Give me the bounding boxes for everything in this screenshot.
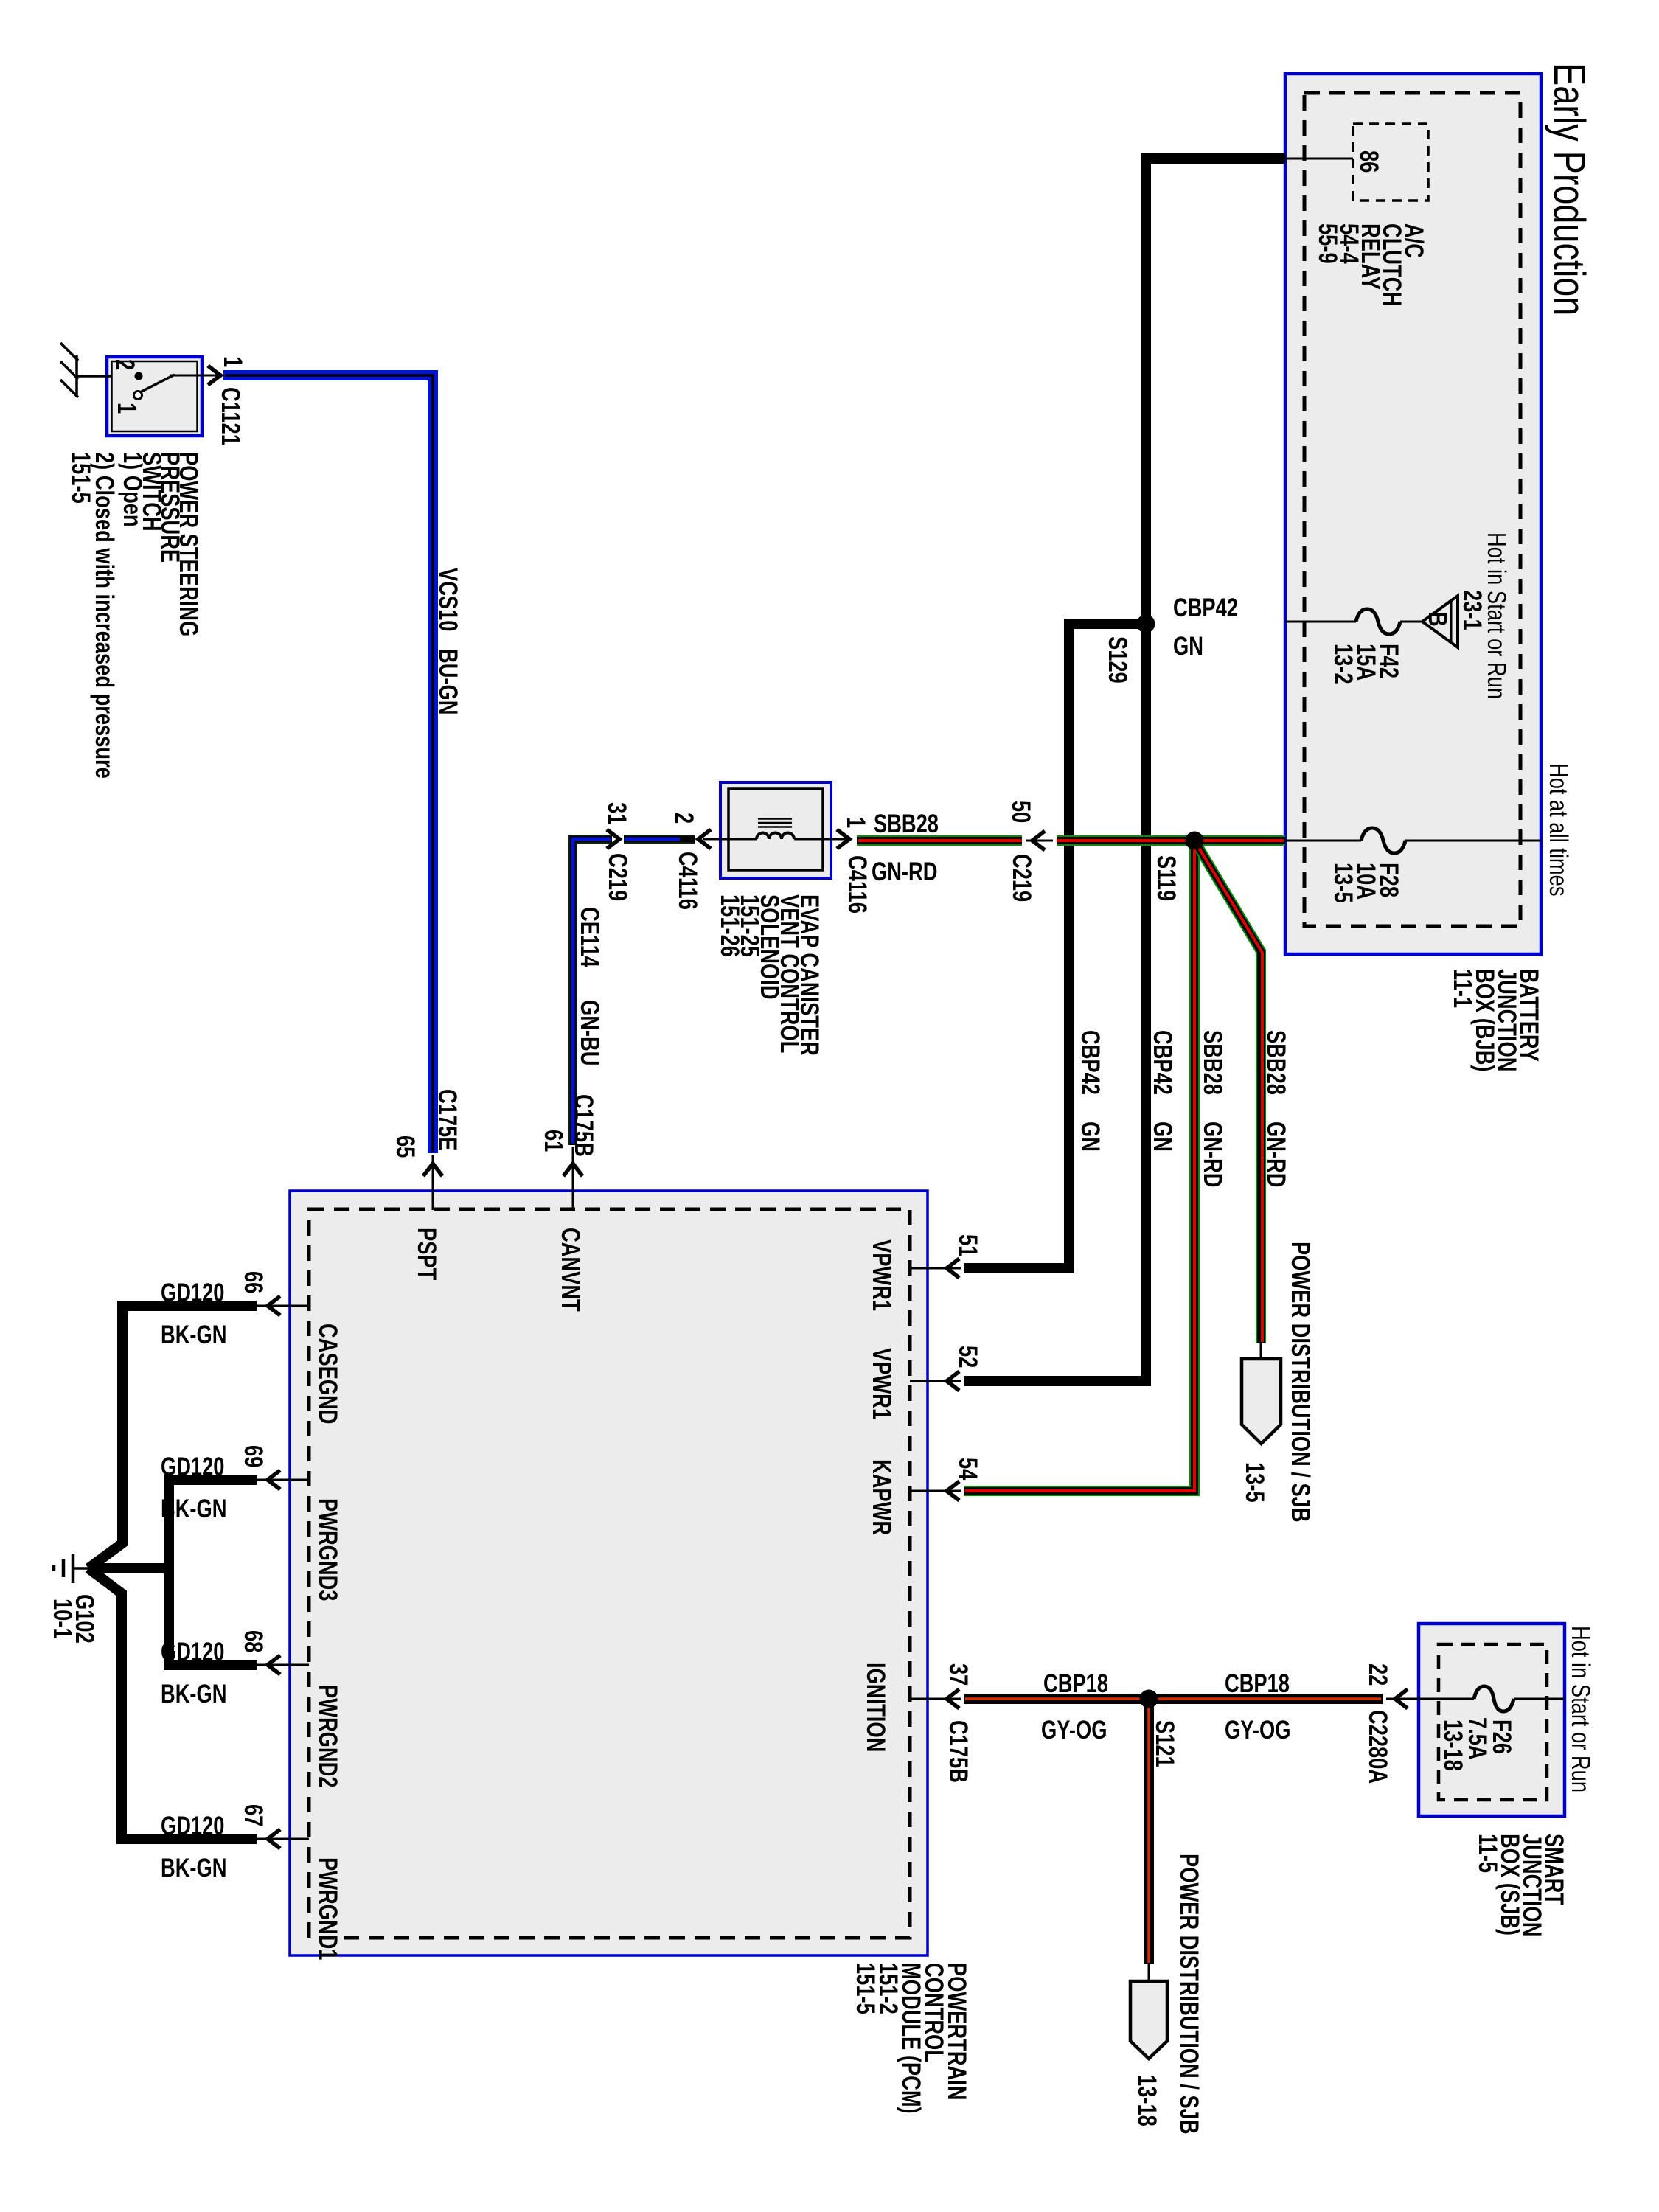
svg-text:S119: S119 (1152, 855, 1180, 901)
wire label GD120 BK-GN (pin 67) (161, 1812, 226, 1882)
wire label VCS10 BU-GN (434, 568, 462, 714)
switch contact pin 1 (open contact ring) (134, 392, 142, 400)
battery junction box BJB outline (1285, 74, 1541, 954)
svg-text:CE114: CE114 (575, 907, 604, 967)
svg-text:13-18: 13-18 (1133, 2075, 1161, 2126)
off-page arrow to power distribution 13-5 (1242, 1359, 1281, 1444)
svg-text:GY-OG: GY-OG (1225, 1716, 1290, 1745)
wire label CBP18 GY-OG (right) (1225, 1669, 1290, 1745)
wire: switch pin 2 to ground hatch (77, 375, 111, 378)
svg-text:CBP18: CBP18 (1225, 1669, 1290, 1698)
fuse F28 (1361, 828, 1405, 853)
fuse F42 (1356, 609, 1400, 634)
svg-text:SBB28: SBB28 (874, 810, 939, 838)
powertrain control module PCM outline (290, 1191, 928, 1955)
connector arrow PCM pin 61 (C175B) (563, 1164, 582, 1176)
svg-text:C175B: C175B (569, 1094, 598, 1157)
connector arrow PCM pin 54 (947, 1481, 959, 1500)
PCM pin 65 labels (391, 1089, 462, 1158)
ground G102 label (48, 1594, 99, 1644)
wire: lead to 13-5 off-page arrow (1260, 1343, 1262, 1363)
connector arrow PCM pin 51 (947, 1259, 959, 1278)
PCM pin 61 labels (539, 1094, 598, 1157)
svg-text:BK-GN: BK-GN (161, 1321, 226, 1349)
wire: lead to 13-18 off-page arrow (1148, 1964, 1150, 1983)
wire: F42 circuit thin leads inside BJB (1285, 621, 1422, 623)
svg-text:1: 1 (841, 817, 870, 828)
svg-text:68: 68 (239, 1630, 268, 1652)
svg-text:2: 2 (669, 813, 698, 824)
svg-text:VPWR1: VPWR1 (867, 1239, 896, 1311)
svg-text:151-5: 151-5 (851, 1963, 880, 2014)
wire: PCM pin 51 thin lead (910, 1267, 961, 1270)
svg-text:POWER DISTRIBUTION / SJB: POWER DISTRIBUTION / SJB (1175, 1854, 1203, 2135)
svg-text:PWRGND2: PWRGND2 (313, 1685, 342, 1787)
svg-text:65: 65 (391, 1135, 420, 1158)
wire label SBB28 GN-RD (horizontal) (872, 810, 939, 886)
connector arrow SJB pin 22 (1395, 1689, 1408, 1708)
off-page label POWER DISTRIBUTION / SJB 13-18 (1133, 1854, 1203, 2135)
red stripe of SBB28 to pin 54 (965, 844, 1194, 1491)
connector C219 pin 31 labels (602, 802, 632, 901)
svg-text:C2280A: C2280A (1363, 1710, 1392, 1784)
svg-text:S129: S129 (1103, 636, 1132, 684)
svg-text:SBB28: SBB28 (1262, 1030, 1290, 1095)
connector C4116 pin 2 labels (669, 813, 702, 910)
wire label CE114 GN-BU (575, 907, 604, 1065)
connector C219 pin 50 labels (1006, 801, 1036, 902)
svg-text:C4116: C4116 (673, 852, 702, 910)
ground wire GD120 from PCM pin 69 (PWRGND3) (169, 1480, 257, 1568)
svg-text:POWER DISTRIBUTION / SJB: POWER DISTRIBUTION / SJB (1286, 1242, 1315, 1523)
EVAP canister vent control solenoid box (720, 782, 831, 878)
svg-text:PWRGND3: PWRGND3 (313, 1498, 342, 1601)
splice junction dot S129 (1137, 615, 1155, 633)
svg-text:C219: C219 (1007, 854, 1036, 902)
switch internal wiring and pin 1 lead (170, 375, 218, 377)
wire label CBP18 GY-OG (left) (1041, 1669, 1108, 1745)
connector arrow C4116 pin 2 (698, 829, 711, 849)
svg-text:PWRGND1: PWRGND1 (313, 1857, 342, 1960)
svg-text:37: 37 (944, 1663, 973, 1686)
svg-text:55-9: 55-9 (1313, 223, 1342, 264)
svg-text:50: 50 (1006, 801, 1035, 823)
connector triangle B 23-1 (1422, 596, 1458, 647)
power steering pressure switch box (107, 357, 202, 436)
wire: PCM pin 66 thin lead (254, 1305, 309, 1307)
connector arrow C4116 pin 1 (837, 829, 849, 849)
wire VCS10 BU-GN from switch to PCM pin 65 (blue) (223, 375, 433, 1153)
connector arrow PCM pin 52 (947, 1371, 959, 1391)
wire CBP18 from S121 down to power distribution arrow 13-18 (1144, 1699, 1154, 1964)
wire SBB28 GN-RD solenoid pin 1 to BJB fuse F28 (857, 835, 1022, 846)
svg-text:GN: GN (1148, 1121, 1177, 1152)
wire label GD120 BK-GN (pin 69) (161, 1453, 226, 1523)
svg-text:VCS10: VCS10 (434, 568, 462, 631)
connector arrow C1121 (208, 366, 220, 385)
connector arrow PCM pin 68 (268, 1655, 280, 1674)
wire CE114 GN-BU from C219 down to PCM pin 61 (573, 839, 612, 1145)
wire label CBP42 GN (branch to pin 51) (1076, 1030, 1105, 1152)
svg-text:S121: S121 (1150, 1720, 1179, 1767)
svg-text:GD120: GD120 (161, 1279, 224, 1307)
A/C clutch relay box (dashed) (1353, 124, 1428, 201)
svg-text:31: 31 (602, 802, 631, 824)
svg-text:B: B (1423, 612, 1452, 627)
svg-text:CBP42: CBP42 (1148, 1030, 1177, 1095)
splice junction dot S121 (1140, 1690, 1158, 1708)
svg-text:CASEGND: CASEGND (313, 1324, 342, 1424)
battery junction box label (1448, 969, 1543, 1071)
SJB pin 22 and connector C2280A labels (1363, 1663, 1392, 1784)
svg-text:CBP18: CBP18 (1043, 1669, 1108, 1698)
connector C1121 pin 1 labels (216, 356, 247, 445)
svg-text:GD120: GD120 (161, 1638, 224, 1666)
wire CBP18 GY-OG PCM pin 37 to SJB pin 22 (964, 1694, 1382, 1704)
svg-text:11-5: 11-5 (1473, 1834, 1502, 1873)
svg-text:66: 66 (239, 1271, 268, 1293)
fuse F26 (1474, 1686, 1514, 1711)
wire: solenoid internal leads (703, 838, 848, 841)
svg-text:GN-RD: GN-RD (1262, 1121, 1290, 1187)
svg-text:CBP42: CBP42 (1173, 594, 1238, 622)
wire label SBB28 GN-RD (branch to pin 54) (1198, 1030, 1227, 1187)
svg-text:52: 52 (953, 1346, 982, 1368)
svg-text:1) Open: 1) Open (118, 452, 147, 527)
fuse F28 label (1329, 863, 1403, 903)
orange stripe of CBP18 GY-OG horizontal wire (965, 1697, 1381, 1700)
svg-text:C175E: C175E (433, 1089, 462, 1150)
svg-text:11-1: 11-1 (1448, 969, 1477, 1008)
svg-text:GD120: GD120 (161, 1453, 224, 1481)
connector arrow PCM pin 69 (268, 1470, 280, 1489)
svg-text:2: 2 (111, 359, 139, 370)
svg-text:13-18: 13-18 (1439, 1719, 1467, 1771)
svg-text:54: 54 (953, 1458, 982, 1481)
svg-text:69: 69 (239, 1445, 268, 1467)
svg-text:SBB28: SBB28 (1198, 1030, 1227, 1095)
green edges of SBB28 horizontal redrawn over crossings (858, 836, 1284, 845)
svg-text:51: 51 (953, 1234, 982, 1256)
svg-text:GD120: GD120 (161, 1812, 224, 1840)
splice junction dot S119 (1186, 832, 1204, 850)
svg-text:CBP42: CBP42 (1076, 1030, 1105, 1095)
connector arrow PCM pin 37 (947, 1689, 959, 1708)
wire label SBB28 GN-RD (branch to 13-5) (1262, 1030, 1290, 1187)
svg-text:GY-OG: GY-OG (1041, 1716, 1107, 1745)
svg-text:BK-GN: BK-GN (161, 1680, 226, 1708)
connector arrow PCM pin 66 (268, 1296, 280, 1315)
svg-text:151-5: 151-5 (66, 452, 95, 504)
wire label GD120 BK-GN (pin 68) (161, 1638, 226, 1708)
switch contact pin 2 (closed contact dot) (135, 372, 143, 380)
connector C4116 pin 1 labels (841, 817, 872, 914)
svg-text:GN-RD: GN-RD (872, 858, 937, 886)
svg-text:86: 86 (1354, 150, 1383, 173)
wire: SJB pin 22 thin lead and F26 leads (1386, 1698, 1565, 1700)
svg-text:C4116: C4116 (843, 855, 872, 914)
powertrain control module label (851, 1963, 971, 2114)
connector arrow PCM pin 65 (C175E) (423, 1164, 442, 1176)
svg-text:Hot at all times: Hot at all times (1544, 763, 1573, 896)
wire: PCM pin 52 thin lead (910, 1380, 961, 1382)
connector arrow C219 pin 50 (1026, 840, 1053, 842)
off-page label POWER DISTRIBUTION / SJB 13-5 (1240, 1242, 1315, 1523)
wire label GD120 BK-GN (pin 66) (161, 1279, 226, 1349)
svg-text:VPWR1: VPWR1 (867, 1348, 896, 1419)
wire: PCM pin 37 thin lead (910, 1698, 961, 1700)
svg-text:C1121: C1121 (216, 387, 245, 445)
wire: relay pin 86 thin lead inside BJB (1285, 158, 1353, 160)
ground wire GD120 from PCM pin 67 (PWRGND1) (88, 1568, 257, 1839)
svg-text:Early Production: Early Production (1545, 63, 1594, 316)
svg-text:10-1: 10-1 (48, 1599, 77, 1639)
svg-text:GN-RD: GN-RD (1198, 1121, 1227, 1187)
ground wire GD120 from PCM pin 68 (PWRGND2) (88, 1568, 257, 1665)
orange stripe of CBP18 to 13-18 arrow (1147, 1700, 1150, 1963)
wire segment C219 to solenoid pin 2 (GN-BU) (624, 835, 695, 844)
svg-text:BK-GN: BK-GN (161, 1854, 226, 1882)
solenoid core bars (758, 819, 792, 827)
svg-text:BU-GN: BU-GN (434, 649, 462, 714)
connector arrow PCM pin 67 (268, 1829, 280, 1848)
EVAP canister vent control solenoid label (715, 894, 824, 1056)
power steering pressure switch label (66, 452, 203, 779)
wire label CBP42 GN (branch to pin 52) (1148, 1030, 1177, 1152)
svg-text:PSPT: PSPT (412, 1228, 441, 1280)
svg-text:23-1: 23-1 (1458, 590, 1486, 630)
wire: PCM pin 54 thin lead (910, 1490, 961, 1492)
fuse F42 label (1329, 644, 1403, 684)
svg-text:C175B: C175B (944, 1720, 973, 1783)
svg-text:13-5: 13-5 (1240, 1462, 1269, 1503)
svg-text:CANVNT: CANVNT (556, 1228, 585, 1312)
svg-text:KAPWR: KAPWR (867, 1459, 896, 1535)
fuse F26 label (1439, 1717, 1516, 1771)
red stripe of SBB28 GN-RD horizontal wire (858, 839, 1022, 842)
wire: PCM pin 67 thin lead (254, 1838, 309, 1840)
svg-text:IGNITION: IGNITION (861, 1663, 890, 1752)
wire: F28 circuit thin leads inside BJB (1285, 840, 1541, 842)
svg-text:61: 61 (539, 1130, 568, 1152)
svg-text:13-5: 13-5 (1329, 863, 1357, 903)
red stripe of SBB28 branch to 13-5 arrow (1197, 844, 1262, 1342)
A/C clutch relay label (1313, 223, 1428, 306)
svg-text:Hot in Start or Run: Hot in Start or Run (1566, 1626, 1595, 1792)
wire: pin 65 lead into PCM (432, 1155, 434, 1210)
wire SBB28 from S119 down to PCM pin 54 (964, 841, 1194, 1491)
solenoid coil humps (757, 833, 794, 840)
PCM pin number 37 and connector C175B (944, 1663, 973, 1783)
wire CBP42 from S129 to PCM pin 51 (964, 624, 1146, 1268)
svg-text:GN-BU: GN-BU (575, 1000, 604, 1065)
off-page arrow to power distribution 13-18 (1130, 1981, 1167, 2059)
svg-text:1: 1 (218, 356, 247, 367)
switch blade (140, 375, 175, 392)
wire SBB28 branch from S119 to power distribution arrow 13-5 (1194, 841, 1261, 1343)
svg-text:GN: GN (1173, 632, 1203, 661)
smart junction box SJB outline (1419, 1624, 1565, 1816)
svg-text:C219: C219 (603, 853, 632, 901)
wire label CBP42 GN at S129 (1173, 594, 1238, 661)
connector arrow C219 pin 31 (607, 829, 619, 849)
ground G102 symbol (54, 1554, 88, 1583)
svg-text:22: 22 (1363, 1663, 1392, 1686)
wire: PCM pin 68 thin lead (254, 1664, 309, 1666)
wire: pin 61 lead into PCM (572, 1147, 574, 1210)
svg-text:1: 1 (112, 403, 141, 414)
wire: PCM pin 69 thin lead (254, 1479, 309, 1481)
smart junction box label (1473, 1834, 1568, 1936)
svg-text:151-26: 151-26 (715, 894, 744, 957)
wire: relay pin 86 thick segment and CBP42 vertical to PCM pin 52 (964, 159, 1285, 1381)
ground hatch symbol at power steering pressure switch (60, 343, 78, 397)
svg-text:13-2: 13-2 (1329, 644, 1357, 684)
svg-text:GN: GN (1076, 1121, 1105, 1152)
svg-text:67: 67 (239, 1804, 268, 1826)
ground wire GD120 from PCM pin 66 (CASEGND) (88, 1306, 257, 1568)
svg-text:BK-GN: BK-GN (161, 1495, 226, 1523)
